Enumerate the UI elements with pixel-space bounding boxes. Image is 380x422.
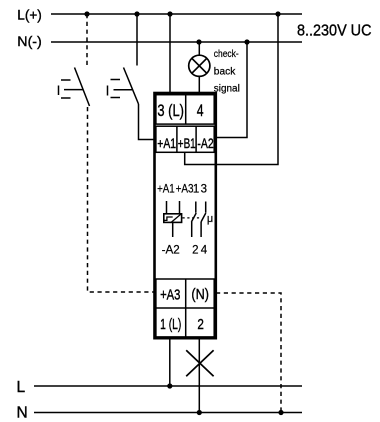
coil bottom stub xyxy=(172,222,174,237)
junction on L(+) at x=87 xyxy=(84,11,89,16)
terminal rows +A3/(N) and 1(L)/2 xyxy=(156,279,214,337)
terminal row 3(L)/4 xyxy=(156,95,214,124)
coil diagonal xyxy=(171,214,181,222)
svg-text:2: 2 xyxy=(197,316,204,333)
svg-text:4: 4 xyxy=(197,102,204,120)
wire 1(L) down to L bus xyxy=(169,338,171,386)
wire L(+) bus top xyxy=(51,13,302,15)
wire 2 down through load to N bus xyxy=(198,338,200,412)
coil step symbol xyxy=(165,217,173,220)
switch S1 actuator top dash xyxy=(61,79,71,81)
svg-text:4: 4 xyxy=(201,245,208,257)
contact 3-4 bottom stub xyxy=(200,222,202,237)
terminal row +A1/+B1/-A2 xyxy=(156,126,214,152)
svg-text:-A2: -A2 xyxy=(197,135,213,151)
device U1 outer enclosure xyxy=(155,93,216,338)
divider row2 b xyxy=(195,126,197,152)
svg-text:+A1: +A1 xyxy=(157,184,175,196)
junction on N bottom at x=281 xyxy=(278,410,283,415)
row3/4 separator xyxy=(156,307,214,309)
switch S2 actuator link xyxy=(114,89,133,91)
coil top stub +A1 xyxy=(166,201,168,214)
svg-text:N(-): N(-) xyxy=(17,33,42,49)
svg-text:back: back xyxy=(214,66,237,77)
mechanical link dotted xyxy=(183,217,201,219)
wire from S2 to +A1 xyxy=(139,104,155,140)
junction on L(+) at x=278 xyxy=(275,11,280,16)
contact 1-2 blade xyxy=(191,213,196,222)
svg-text:+A3: +A3 xyxy=(160,287,180,304)
switch S1 actuator link xyxy=(64,89,83,91)
divider rows34 xyxy=(185,279,187,337)
wire from L(+) to +B1 (right side) xyxy=(185,14,278,165)
svg-text:1 (L): 1 (L) xyxy=(160,316,181,333)
switch S1 actuator left dash xyxy=(58,86,60,96)
svg-text:3 (L): 3 (L) xyxy=(157,102,184,120)
wire drop from L(+) to switch S2 xyxy=(136,14,138,66)
switch S2 actuator bottom dash xyxy=(111,97,121,99)
contact 3-4 blade xyxy=(201,213,206,222)
svg-text:3: 3 xyxy=(201,184,207,196)
svg-text:μ: μ xyxy=(207,213,213,225)
switch S2 actuator left dash xyxy=(107,86,109,96)
contact 3-4 top stub xyxy=(205,202,207,213)
svg-text:N: N xyxy=(17,404,28,421)
switch S1 actuator bottom dash xyxy=(61,97,71,99)
svg-text:(N): (N) xyxy=(191,286,209,303)
svg-text:signal: signal xyxy=(214,83,240,94)
svg-text:1: 1 xyxy=(193,184,199,196)
divider row1 xyxy=(185,95,187,124)
lamp H1 check-back signal xyxy=(189,55,210,76)
wire N bus bottom xyxy=(34,412,302,414)
coil top stub +A3 xyxy=(179,201,181,214)
wire drop from L(+) to terminal 3(L) xyxy=(169,14,171,93)
svg-text:8..230V UC: 8..230V UC xyxy=(297,23,372,40)
wire N(-) bus top xyxy=(51,41,302,43)
wire L bus bottom xyxy=(34,385,302,387)
divider row2 a xyxy=(176,126,178,152)
wire dashed (N) to bottom N bus xyxy=(216,293,281,413)
svg-text:L(+): L(+) xyxy=(17,6,42,22)
svg-text:+B1: +B1 xyxy=(178,135,196,151)
switch S2 actuator top dash xyxy=(111,79,121,81)
wire from lamp to terminal 4 xyxy=(198,76,200,93)
contact 1-2 bottom stub xyxy=(191,222,193,237)
svg-text:+A3: +A3 xyxy=(176,184,194,196)
wire dashed drop from L(+) to switch S1 xyxy=(86,14,88,65)
contact 1-2 top stub xyxy=(195,202,197,213)
wire dashed from S1 down to +A3 xyxy=(88,107,155,292)
load X symbol xyxy=(186,350,213,376)
svg-text:check-: check- xyxy=(214,49,239,60)
junction on L(+) at x=170 xyxy=(167,11,172,16)
junction on L(+) at x=137 xyxy=(134,11,139,16)
switch S2 blade (normally open) xyxy=(124,68,139,105)
svg-text:-A2: -A2 xyxy=(162,245,180,257)
wire from N(-) to -A2 (right side) xyxy=(215,42,248,138)
junction on N(-) at x=247 xyxy=(244,39,249,44)
svg-text:+A1: +A1 xyxy=(157,135,176,151)
relay coil K1 box xyxy=(164,214,182,223)
svg-text:L: L xyxy=(17,379,26,396)
switch S1 blade (normally open) xyxy=(75,68,90,107)
junction on N bottom at x=199 xyxy=(197,410,202,415)
svg-text:2: 2 xyxy=(192,245,198,257)
junction on L bottom xyxy=(167,383,172,388)
junction on N(-) at x=199 xyxy=(196,39,201,44)
label check-back signal xyxy=(214,49,240,94)
wire from N(-) to lamp xyxy=(198,42,200,55)
